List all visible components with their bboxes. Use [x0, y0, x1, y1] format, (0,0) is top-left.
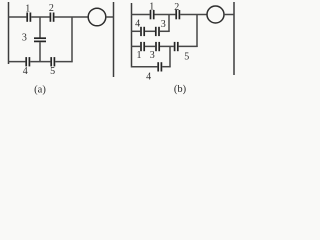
svg-text:1: 1 [149, 1, 154, 12]
contact 4 (row2) [141, 27, 144, 36]
wire: row4 rail to contact 4 [131, 66, 157, 68]
svg-text:4: 4 [146, 71, 151, 82]
wire: node B down to bottom rung [71, 17, 73, 62]
wire: row1 rail to contact 1 [8, 16, 26, 18]
contact 4 (row4) [158, 62, 161, 71]
wire: contact 5 to node D column [179, 45, 198, 47]
wire: contact 4 to node E column [162, 66, 170, 68]
svg-text:3: 3 [161, 19, 166, 30]
contact 2 (row1) [176, 10, 179, 19]
wire: coil to right rail [106, 16, 114, 18]
svg-text:1: 1 [25, 4, 30, 15]
contact 1 (row3) [141, 42, 144, 51]
svg-text:1: 1 [137, 50, 142, 61]
wire: contact 3 to contact 5 (node E at x=170) [160, 45, 174, 47]
left rail (a) [8, 2, 10, 64]
wire: contact 4 to contact 5 (junction with branch at x=40) [30, 61, 50, 63]
wire: contact 3 to node C column [160, 30, 170, 32]
wire: contact 3 down to bottom rung [39, 42, 41, 62]
svg-text:5: 5 [50, 66, 55, 77]
wire: node E down to row4 [169, 46, 171, 67]
svg-text:4: 4 [135, 19, 140, 30]
svg-text:4: 4 [23, 66, 28, 77]
contact 5 [51, 57, 54, 66]
coil (a) [88, 8, 106, 26]
wire: contact 5 to node B column [55, 61, 72, 63]
svg-text:5: 5 [184, 51, 189, 62]
contact 3 (row2) [156, 27, 159, 36]
right rail (b) [233, 2, 235, 75]
wire: contact 1 to contact 2 (node C at x=169) [155, 14, 176, 16]
wire: contact 2 to coil (node D at x=197) [180, 14, 207, 16]
wire: row1 rail to contact 1 [131, 14, 150, 16]
svg-text:(a): (a) [34, 85, 46, 96]
wire: coil to right rail [224, 14, 234, 16]
wire: contact 4 to contact 3 (row2) [145, 30, 155, 32]
svg-text:3: 3 [22, 32, 27, 43]
wire: branch node A down to contact 3 [39, 17, 41, 38]
svg-text:3: 3 [150, 50, 155, 61]
wire: node C down to row2 [168, 15, 170, 32]
wire: contact 2 to coil (node B at x=72) [54, 16, 88, 18]
wire: row3 rail to contact 1 [131, 45, 140, 47]
contact 1 [27, 13, 30, 22]
contact 2 [50, 13, 53, 22]
svg-text:(b): (b) [174, 84, 187, 95]
wire: node D down to row3 [196, 15, 198, 48]
wire: bottom rung rail to contact 4 [8, 61, 25, 63]
contact 3 (row3) [156, 42, 159, 51]
contact 1 (row1) [151, 10, 154, 19]
contact 4 [26, 57, 29, 66]
wire: contact 1 to contact 3 (row3) [145, 45, 155, 47]
coil (b) [207, 6, 224, 23]
wire: row2 rail to contact 4 [131, 30, 140, 32]
svg-text:2: 2 [49, 3, 54, 14]
right rail (a) [113, 2, 115, 77]
svg-text:2: 2 [174, 2, 179, 13]
left rail (b) [131, 3, 133, 68]
contact 3 [34, 38, 46, 41]
wire: contact 1 to contact 2 (node A at x=40) [31, 16, 49, 18]
contact 5 (row3) [175, 42, 178, 51]
